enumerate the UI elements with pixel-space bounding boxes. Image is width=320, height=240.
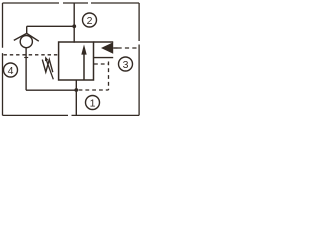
wire: port 2 stem from top boundary to junction	[73, 3, 75, 43]
dashed pilot vertical	[108, 62, 110, 91]
wire: bottom run from check valve to main junction	[26, 89, 76, 91]
port label 1	[86, 96, 100, 110]
dashed pilot line to port 3 boundary	[118, 47, 140, 49]
port label 4	[4, 63, 18, 77]
flow arrow inside box	[83, 53, 85, 80]
port label 3	[119, 57, 133, 71]
spring (adjustable)	[42, 60, 53, 73]
adjustment arrow across spring	[46, 60, 53, 79]
check valve CV1 (ball on seat)	[14, 26, 39, 90]
port label 2	[83, 13, 97, 27]
svg-text:3: 3	[123, 59, 129, 71]
wire: horizontal from check valve to port2 stem	[27, 25, 74, 27]
dashed pilot branch from box right edge	[94, 63, 109, 65]
wire: from box bottom through junction to port 1 boundary	[75, 80, 77, 115]
svg-text:2: 2	[87, 15, 93, 27]
small tick below port4 line at check wire crossing	[24, 57, 28, 59]
pilot dashed line to port 4	[4, 54, 59, 56]
svg-text:1: 1	[90, 97, 96, 109]
pilot poppet triangle (filled, pointing left)	[101, 42, 113, 54]
node junction at port2 stem	[72, 24, 76, 28]
dashed pilot bottom run to junction	[79, 89, 109, 91]
node junction below box	[74, 88, 78, 92]
svg-text:4: 4	[8, 65, 14, 77]
rails to pilot seat (right of box)	[94, 41, 114, 43]
cartridge envelope (dash-dot boundary)	[3, 3, 140, 115]
main valve box	[59, 42, 94, 80]
solid stub from triangle to dashed port3 line	[113, 47, 117, 49]
